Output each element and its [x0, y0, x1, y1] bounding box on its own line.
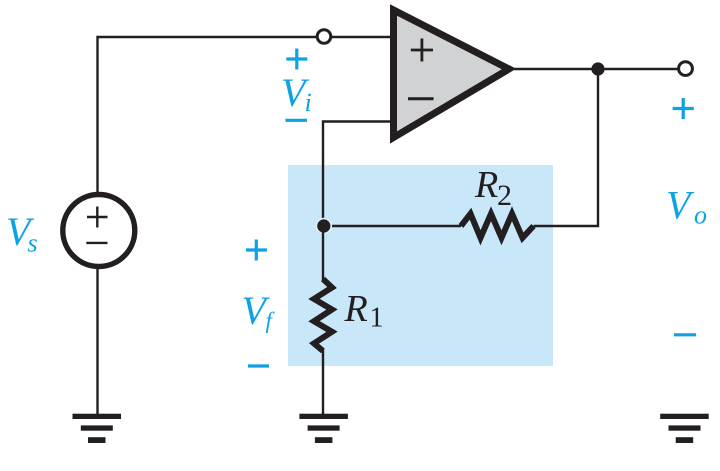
- ground (under R1): [299, 414, 348, 443]
- wire: from output node down and left to R2 right lead: [534, 69, 599, 226]
- svg-text:V: V: [666, 183, 695, 228]
- input terminal (open circle): [317, 30, 331, 44]
- label Vi with + and -: [286, 49, 308, 121]
- feedback network shaded box: [288, 165, 553, 366]
- wire: R1 top lead: [322, 226, 324, 280]
- output terminal (open circle): [679, 62, 693, 76]
- wire: node to R2 left lead: [323, 225, 461, 227]
- label R1: [344, 288, 384, 334]
- ground (right, under Vo -): [660, 414, 709, 443]
- label Vs: [6, 209, 38, 258]
- svg-text:1: 1: [370, 303, 384, 334]
- svg-text:o: o: [694, 201, 707, 230]
- wire: from Vs top up and right to op-amp + input: [98, 37, 392, 193]
- svg-text:R: R: [344, 288, 368, 330]
- svg-text:s: s: [28, 229, 38, 258]
- svg-text:i: i: [305, 88, 312, 117]
- label Vf with + and -: [246, 240, 269, 367]
- resistor R2: [461, 214, 534, 238]
- label Vo with + and -: [673, 98, 696, 335]
- svg-text:2: 2: [497, 179, 512, 212]
- ground (under Vs): [73, 414, 122, 443]
- wire: op-amp output to right terminal: [505, 68, 680, 70]
- node: feedback junction dot: [316, 218, 333, 235]
- svg-text:R: R: [474, 164, 498, 206]
- wire: feedback from op-amp - input left and down to node: [323, 122, 391, 227]
- wire: below source down to ground: [96, 267, 98, 415]
- node: output junction dot: [591, 62, 604, 75]
- label R2: [474, 164, 512, 212]
- svg-text:f: f: [266, 308, 276, 333]
- voltage source Vs (circle with + and -): [63, 195, 135, 267]
- op-amp U1: [394, 10, 510, 138]
- wire: R1 bottom lead to ground: [322, 350, 324, 415]
- resistor R1: [314, 279, 332, 351]
